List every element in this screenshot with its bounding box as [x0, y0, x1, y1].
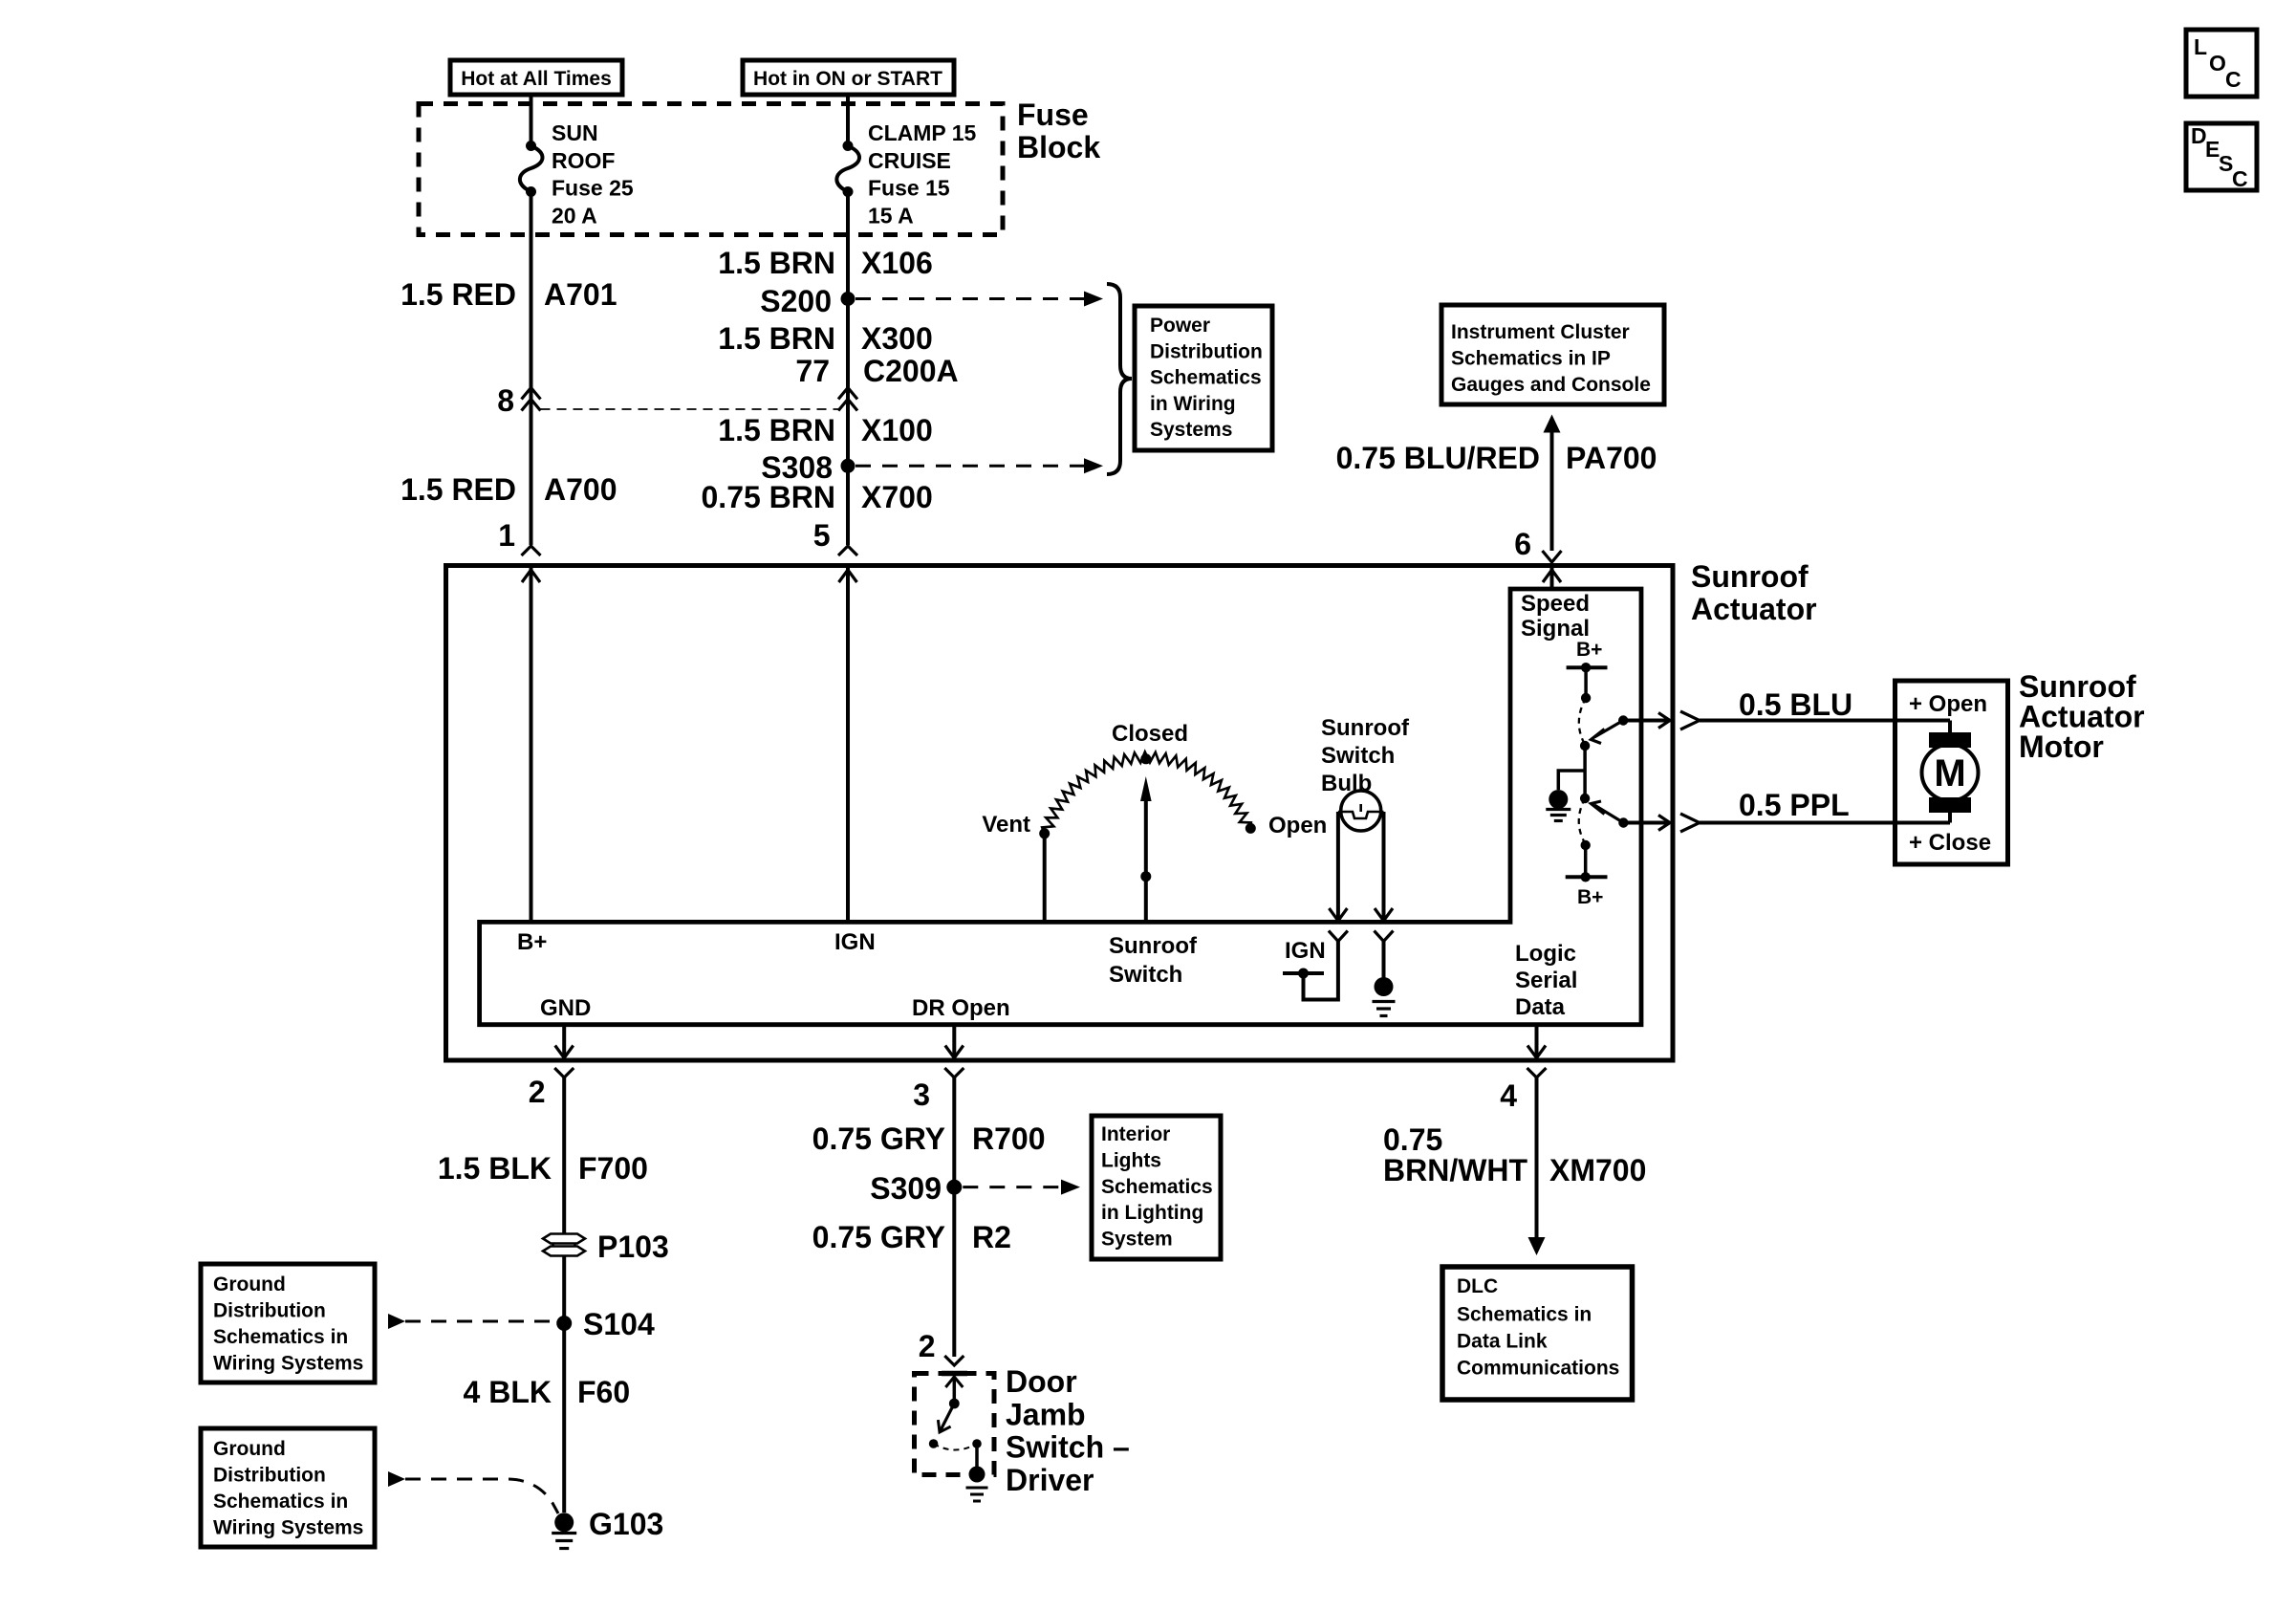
svg-text:Actuator: Actuator: [1691, 592, 1817, 626]
svg-text:ROOF: ROOF: [552, 148, 615, 173]
svg-text:DLC: DLC: [1457, 1275, 1498, 1297]
svg-text:Switch –: Switch –: [1006, 1430, 1130, 1465]
svg-text:Hot in ON or START: Hot in ON or START: [753, 68, 942, 90]
svg-text:X700: X700: [861, 480, 933, 514]
svg-text:C: C: [2232, 166, 2248, 191]
svg-text:5: 5: [813, 518, 831, 553]
svg-text:4 BLK: 4 BLK: [464, 1375, 552, 1409]
svg-text:Vent: Vent: [982, 812, 1030, 838]
svg-text:Data: Data: [1515, 994, 1566, 1020]
svg-text:6: 6: [1514, 527, 1531, 561]
svg-text:X100: X100: [861, 413, 933, 447]
svg-text:Hot at All Times: Hot at All Times: [461, 68, 612, 90]
svg-text:Distribution: Distribution: [1150, 340, 1263, 362]
svg-text:R700: R700: [972, 1121, 1046, 1156]
svg-text:Distribution: Distribution: [213, 1465, 326, 1487]
svg-text:0.75 BRN: 0.75 BRN: [702, 480, 836, 514]
svg-text:in Lighting: in Lighting: [1101, 1202, 1203, 1224]
svg-text:PA700: PA700: [1566, 441, 1657, 475]
svg-text:X300: X300: [861, 321, 933, 356]
svg-text:20 A: 20 A: [552, 203, 597, 228]
svg-text:C200A: C200A: [863, 354, 959, 388]
svg-text:G103: G103: [589, 1507, 663, 1541]
svg-text:0.5 PPL: 0.5 PPL: [1739, 788, 1850, 822]
svg-text:Sunroof: Sunroof: [1109, 933, 1198, 959]
svg-text:Motor: Motor: [2019, 729, 2104, 764]
svg-text:S104: S104: [583, 1307, 655, 1341]
svg-text:8: 8: [497, 383, 514, 418]
svg-text:DR Open: DR Open: [912, 995, 1010, 1021]
svg-text:Sunroof: Sunroof: [1321, 715, 1410, 741]
svg-text:77: 77: [795, 354, 830, 388]
svg-text:2: 2: [919, 1329, 936, 1363]
svg-text:XM700: XM700: [1549, 1153, 1646, 1187]
svg-text:1.5 RED: 1.5 RED: [401, 472, 516, 507]
svg-text:+ Close: + Close: [1909, 830, 1991, 856]
svg-text:Schematics: Schematics: [1150, 367, 1262, 389]
svg-text:A701: A701: [544, 277, 617, 312]
svg-text:Speed: Speed: [1521, 591, 1590, 617]
svg-text:Ground: Ground: [213, 1438, 286, 1460]
svg-text:CLAMP 15: CLAMP 15: [868, 120, 977, 145]
svg-text:A700: A700: [544, 472, 617, 507]
svg-text:B+: B+: [517, 929, 547, 955]
svg-text:C: C: [2225, 67, 2242, 92]
svg-text:Block: Block: [1017, 130, 1100, 164]
svg-text:Open: Open: [1268, 813, 1327, 838]
svg-text:Fuse 25: Fuse 25: [552, 176, 634, 201]
svg-text:BRN/WHT: BRN/WHT: [1383, 1153, 1528, 1187]
svg-text:Wiring Systems: Wiring Systems: [213, 1353, 363, 1375]
svg-text:S309: S309: [870, 1171, 942, 1206]
svg-text:L: L: [2194, 34, 2207, 59]
svg-text:0.75: 0.75: [1383, 1122, 1442, 1157]
svg-text:Logic: Logic: [1515, 941, 1576, 967]
svg-text:Serial: Serial: [1515, 968, 1577, 993]
svg-text:B+: B+: [1576, 639, 1602, 661]
svg-text:Sunroof: Sunroof: [1691, 559, 1809, 594]
svg-text:R2: R2: [972, 1220, 1011, 1254]
svg-text:Lights: Lights: [1101, 1149, 1161, 1171]
svg-text:1.5 BLK: 1.5 BLK: [438, 1151, 552, 1186]
svg-text:1: 1: [498, 518, 515, 553]
svg-text:Communications: Communications: [1457, 1358, 1619, 1380]
svg-text:Schematics in: Schematics in: [213, 1491, 348, 1513]
svg-text:CRUISE: CRUISE: [868, 148, 951, 173]
svg-text:15 A: 15 A: [868, 203, 914, 228]
svg-text:GND: GND: [540, 995, 591, 1021]
svg-text:0.75 BLU/RED: 0.75 BLU/RED: [1336, 441, 1540, 475]
svg-text:2: 2: [529, 1075, 546, 1109]
svg-text:IGN: IGN: [1285, 938, 1326, 964]
svg-text:Schematics in IP: Schematics in IP: [1451, 348, 1611, 370]
svg-text:0.5 BLU: 0.5 BLU: [1739, 687, 1852, 722]
svg-text:1.5 RED: 1.5 RED: [401, 277, 516, 312]
svg-text:Switch: Switch: [1109, 962, 1182, 988]
svg-text:Door: Door: [1006, 1364, 1077, 1399]
svg-text:Bulb: Bulb: [1321, 771, 1372, 796]
svg-text:0.75 GRY: 0.75 GRY: [812, 1121, 945, 1156]
svg-text:Power: Power: [1150, 315, 1210, 337]
svg-text:Fuse 15: Fuse 15: [868, 176, 950, 201]
svg-text:O: O: [2209, 51, 2226, 76]
svg-text:Schematics in: Schematics in: [213, 1326, 348, 1348]
svg-text:IGN: IGN: [834, 929, 876, 955]
svg-text:Data Link: Data Link: [1457, 1331, 1548, 1353]
svg-text:M: M: [1934, 752, 1965, 795]
svg-text:Signal: Signal: [1521, 616, 1590, 642]
svg-text:1.5 BRN: 1.5 BRN: [718, 246, 835, 280]
svg-text:Schematics in: Schematics in: [1457, 1304, 1592, 1326]
svg-text:Switch: Switch: [1321, 743, 1395, 769]
svg-text:X106: X106: [861, 246, 933, 280]
svg-text:P103: P103: [597, 1230, 669, 1264]
svg-text:Instrument Cluster: Instrument Cluster: [1451, 321, 1630, 343]
svg-text:Gauges and Console: Gauges and Console: [1451, 374, 1651, 396]
svg-text:3: 3: [913, 1078, 930, 1112]
svg-text:in Wiring: in Wiring: [1150, 393, 1236, 415]
svg-text:+ Open: + Open: [1909, 691, 1987, 717]
svg-text:1.5 BRN: 1.5 BRN: [718, 321, 835, 356]
svg-text:Wiring Systems: Wiring Systems: [213, 1517, 363, 1539]
svg-text:S200: S200: [760, 284, 832, 318]
svg-text:F700: F700: [578, 1151, 648, 1186]
svg-text:B+: B+: [1577, 886, 1603, 908]
svg-text:F60: F60: [577, 1375, 630, 1409]
svg-text:Schematics: Schematics: [1101, 1176, 1213, 1198]
svg-text:Jamb: Jamb: [1006, 1397, 1086, 1431]
svg-text:SUN: SUN: [552, 120, 598, 145]
svg-text:System: System: [1101, 1229, 1173, 1251]
svg-text:Ground: Ground: [213, 1274, 286, 1295]
svg-text:Interior: Interior: [1101, 1123, 1170, 1145]
svg-text:1.5 BRN: 1.5 BRN: [718, 413, 835, 447]
svg-text:Distribution: Distribution: [213, 1300, 326, 1322]
svg-text:4: 4: [1500, 1078, 1517, 1113]
svg-text:Fuse: Fuse: [1017, 98, 1089, 132]
svg-text:Driver: Driver: [1006, 1463, 1094, 1497]
svg-text:Closed: Closed: [1112, 721, 1188, 747]
svg-text:0.75 GRY: 0.75 GRY: [812, 1220, 945, 1254]
svg-text:Systems: Systems: [1150, 419, 1232, 441]
